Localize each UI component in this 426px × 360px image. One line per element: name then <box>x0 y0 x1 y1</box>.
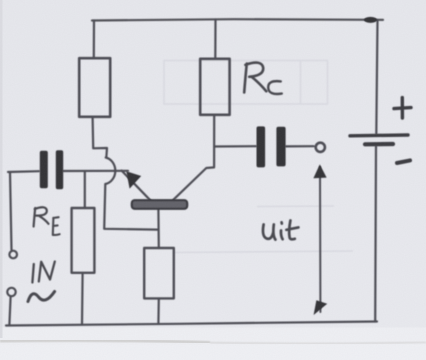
node output terminal <box>316 143 325 152</box>
wire collector to output cap <box>214 145 256 148</box>
resistor R2 <box>144 248 174 298</box>
wire lower terminal to rail <box>9 297 10 325</box>
wire RC top lead <box>214 20 216 59</box>
wire battery top lead <box>376 20 377 134</box>
label AC tilde <box>28 292 55 302</box>
capacitor C2 plate left <box>257 126 266 167</box>
node input terminal upper <box>9 251 17 259</box>
wire base lead <box>157 210 160 249</box>
uit arrow head bottom <box>314 300 328 315</box>
node junction dot top rail <box>364 17 377 23</box>
label Uit U <box>263 225 275 240</box>
wire battery bottom lead <box>374 147 377 322</box>
faint ruled line A <box>257 205 334 208</box>
transistor Q1 base bar <box>132 200 187 209</box>
wire input to capacitor <box>8 170 39 173</box>
label plus <box>394 98 411 118</box>
wire top rail <box>92 19 383 20</box>
wire RE bottom lead <box>81 273 84 325</box>
label Uit t <box>286 221 298 240</box>
hand written labels <box>28 63 298 302</box>
capacitor C1 plate right <box>56 150 63 189</box>
resistor RE <box>72 208 95 273</box>
wire bottom rail <box>6 322 377 326</box>
battery B1 <box>350 98 411 163</box>
wire R2 bottom lead <box>157 299 160 324</box>
wire uit measurement line <box>319 167 321 312</box>
wire emitter diagonal <box>122 171 152 202</box>
label IN <box>32 262 54 283</box>
battery long plate <box>350 133 408 137</box>
faint show-through table box <box>164 61 353 253</box>
faint ruled line B <box>173 251 353 253</box>
resistor RC <box>200 59 229 115</box>
wire output cap to terminal <box>286 145 314 147</box>
wire RE top lead <box>84 172 86 209</box>
capacitor C2 plate right <box>276 127 285 167</box>
wire hop to base junction <box>104 184 157 230</box>
wire crossover hop <box>106 158 116 185</box>
wire R1 bottom lead with jog <box>93 117 107 157</box>
label minus <box>397 160 410 163</box>
wire input left vertical <box>10 172 12 250</box>
wire R1 top lead <box>93 21 95 59</box>
capacitor C1 plate left <box>40 151 48 189</box>
battery short plate <box>365 142 393 147</box>
wire collector jog <box>173 167 214 199</box>
wire RC bottom lead <box>213 115 215 167</box>
transistor Q1 emitter arrowhead <box>126 171 141 188</box>
label RE subscript E <box>53 217 60 235</box>
label RE <box>34 207 49 226</box>
label Uit i <box>281 222 283 239</box>
resistor R1 <box>79 58 110 117</box>
wire capacitor to emitter <box>64 170 129 172</box>
paper bottom edge shadow <box>0 328 426 360</box>
label RC subscript c <box>268 81 282 94</box>
node input terminal lower <box>7 288 15 296</box>
uit arrow head top <box>313 164 326 178</box>
label RC <box>244 63 266 93</box>
